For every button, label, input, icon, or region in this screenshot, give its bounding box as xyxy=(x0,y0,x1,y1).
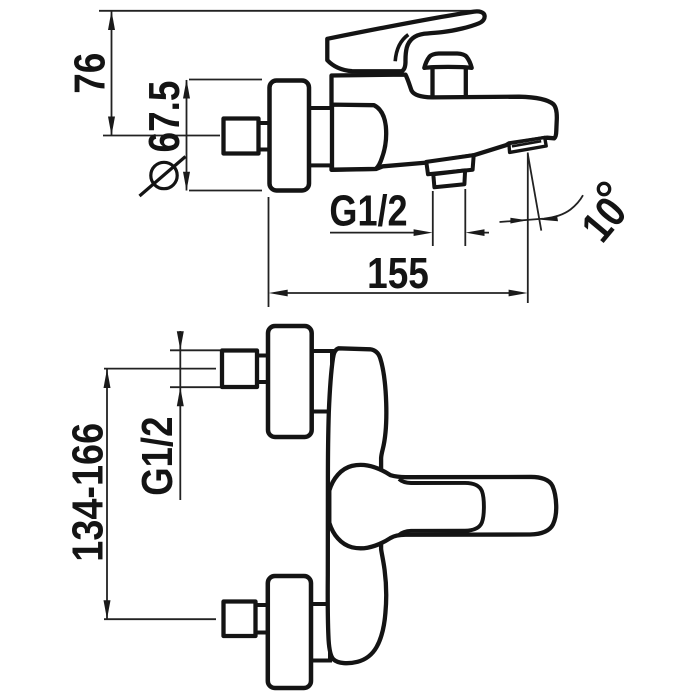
svg-text:76: 76 xyxy=(64,53,114,94)
svg-text:134-166: 134-166 xyxy=(63,423,112,562)
svg-text:67.5: 67.5 xyxy=(139,81,189,153)
svg-text:G1/2: G1/2 xyxy=(132,417,182,496)
svg-text:G1/2: G1/2 xyxy=(329,186,407,235)
svg-text:155: 155 xyxy=(367,248,429,298)
